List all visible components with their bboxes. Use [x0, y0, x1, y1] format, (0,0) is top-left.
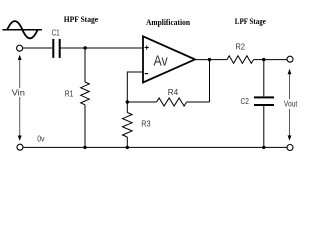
Vin arrow	[18, 55, 22, 141]
op-amp - input marker	[145, 73, 148, 75]
resistor R4	[157, 98, 187, 106]
junction node (R1/ground)	[83, 146, 86, 149]
svg-text:Vout: Vout	[284, 100, 298, 109]
svg-text:Amplification: Amplification	[146, 18, 191, 27]
ground rail wire	[23, 146, 287, 148]
ground terminal (bottom-right)	[287, 145, 293, 151]
AC source V1 sine symbol	[3, 21, 43, 38]
resistor R3	[123, 113, 133, 138]
wire junction to R4	[127, 101, 156, 103]
wire R4 to feedback riser	[187, 101, 210, 103]
resistor R2	[227, 56, 254, 64]
wire op-amp output to R2	[195, 59, 227, 61]
svg-text:0v: 0v	[37, 134, 45, 144]
svg-text:C1: C1	[52, 28, 60, 38]
wire - input stub	[127, 72, 143, 102]
Vout arrow	[288, 69, 292, 141]
svg-text:HPF Stage: HPF Stage	[64, 15, 99, 24]
op-amp + input marker	[145, 45, 149, 49]
ground terminal (bottom-left)	[17, 144, 23, 150]
op-amp U1	[143, 36, 195, 82]
junction node (C1/R1)	[84, 46, 87, 49]
wire feedback riser	[209, 60, 211, 102]
svg-text:R1: R1	[65, 89, 74, 99]
resistor R1	[81, 82, 90, 105]
svg-text:LPF Stage: LPF Stage	[235, 17, 266, 26]
svg-text:R3: R3	[141, 119, 151, 129]
junction node (R3/ground)	[126, 146, 129, 149]
svg-text:Av: Av	[154, 52, 169, 69]
wire R2 to output terminal	[254, 59, 288, 61]
svg-text:Vin: Vin	[12, 87, 26, 97]
svg-text:R4: R4	[168, 87, 179, 97]
svg-text:R2: R2	[236, 42, 246, 52]
wire junction down to C2	[263, 60, 265, 97]
wire input terminal to C1	[23, 47, 52, 49]
wire C1 to op-amp + input	[61, 47, 143, 49]
input terminal (top-left)	[17, 45, 23, 51]
junction node (feedback/R3)	[126, 100, 129, 103]
wire R1 to ground rail	[84, 105, 86, 148]
wire R3 to ground rail	[126, 137, 128, 147]
junction node (R2/C2)	[262, 58, 265, 61]
capacitor C2	[254, 96, 274, 106]
junction node (C2/ground)	[262, 146, 265, 149]
output terminal (top-right)	[287, 56, 293, 62]
wire C2 to ground rail	[263, 106, 265, 147]
junction node (output/feedback)	[208, 58, 211, 61]
capacitor C1	[52, 39, 60, 58]
wire junction down to R1	[84, 48, 86, 82]
svg-text:C2: C2	[241, 96, 250, 106]
wire junction to R3	[126, 102, 128, 113]
